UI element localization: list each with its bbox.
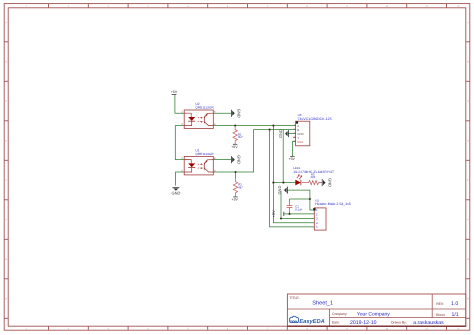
svg-text:4k7: 4k7 [238, 135, 243, 139]
svg-text:G: G [5, 258, 7, 261]
svg-text:Drawn By:: Drawn By: [391, 320, 407, 324]
svg-text:+5V: +5V [232, 198, 239, 202]
svg-text:F: F [5, 219, 7, 222]
svg-text:74LVC1G86DCK.125: 74LVC1G86DCK.125 [298, 117, 332, 121]
svg-text:Date:: Date: [332, 320, 340, 324]
svg-text:I: I [6, 323, 7, 326]
svg-text:5: 5 [316, 225, 318, 229]
svg-text:C: C [5, 100, 7, 103]
svg-text:220: 220 [311, 175, 316, 179]
svg-text:A: A [467, 22, 469, 25]
svg-text:F: F [467, 219, 469, 222]
svg-text:B: B [5, 61, 7, 64]
svg-text:G: G [467, 258, 469, 261]
svg-text:Sheet_1: Sheet_1 [312, 300, 333, 307]
svg-text:A: A [5, 22, 7, 25]
svg-text:TITLE:: TITLE: [289, 296, 299, 300]
svg-text:GND: GND [278, 129, 283, 138]
svg-text:EasyEDA: EasyEDA [299, 319, 324, 325]
svg-text:2019-12-10: 2019-12-10 [350, 320, 377, 326]
svg-text:Sheet:: Sheet: [436, 313, 446, 317]
svg-text:I: I [467, 323, 468, 326]
svg-text:C: C [467, 100, 469, 103]
svg-text:Header-Male-2.54_1x5: Header-Male-2.54_1x5 [315, 202, 351, 206]
svg-text:GND: GND [237, 109, 242, 118]
svg-text:GND: GND [171, 191, 180, 196]
svg-text:QRE1113GR: QRE1113GR [195, 152, 214, 156]
svg-text:19-217/BHC-ZL1M2RY/3T: 19-217/BHC-ZL1M2RY/3T [293, 170, 334, 174]
svg-text:B: B [467, 61, 469, 64]
svg-text:1/1: 1/1 [452, 312, 459, 318]
svg-text:4k7: 4k7 [238, 185, 243, 189]
svg-text:VCC: VCC [297, 140, 303, 144]
svg-text:+5V: +5V [171, 90, 178, 94]
svg-text:Your Company: Your Company [357, 312, 390, 318]
svg-text:H: H [467, 298, 469, 301]
svg-text:+5V: +5V [289, 157, 296, 161]
svg-text:H: H [5, 298, 7, 301]
svg-text:0.1uF: 0.1uF [295, 207, 302, 211]
svg-text:GND: GND [237, 155, 242, 164]
svg-text:E: E [5, 179, 7, 182]
svg-text:D: D [5, 140, 7, 143]
svg-text:1.0: 1.0 [451, 301, 458, 307]
svg-text:REV:: REV: [436, 302, 444, 306]
svg-text:E: E [467, 179, 469, 182]
svg-text:GND: GND [328, 178, 333, 187]
svg-text:a.raskauskas: a.raskauskas [413, 320, 444, 326]
svg-text:+5V: +5V [231, 145, 238, 149]
svg-text:+5V: +5V [271, 210, 276, 218]
svg-text:Company:: Company: [332, 312, 348, 316]
svg-text:D: D [467, 140, 469, 143]
svg-text:QRE1113GR: QRE1113GR [195, 105, 214, 109]
svg-text:GND: GND [277, 186, 282, 195]
